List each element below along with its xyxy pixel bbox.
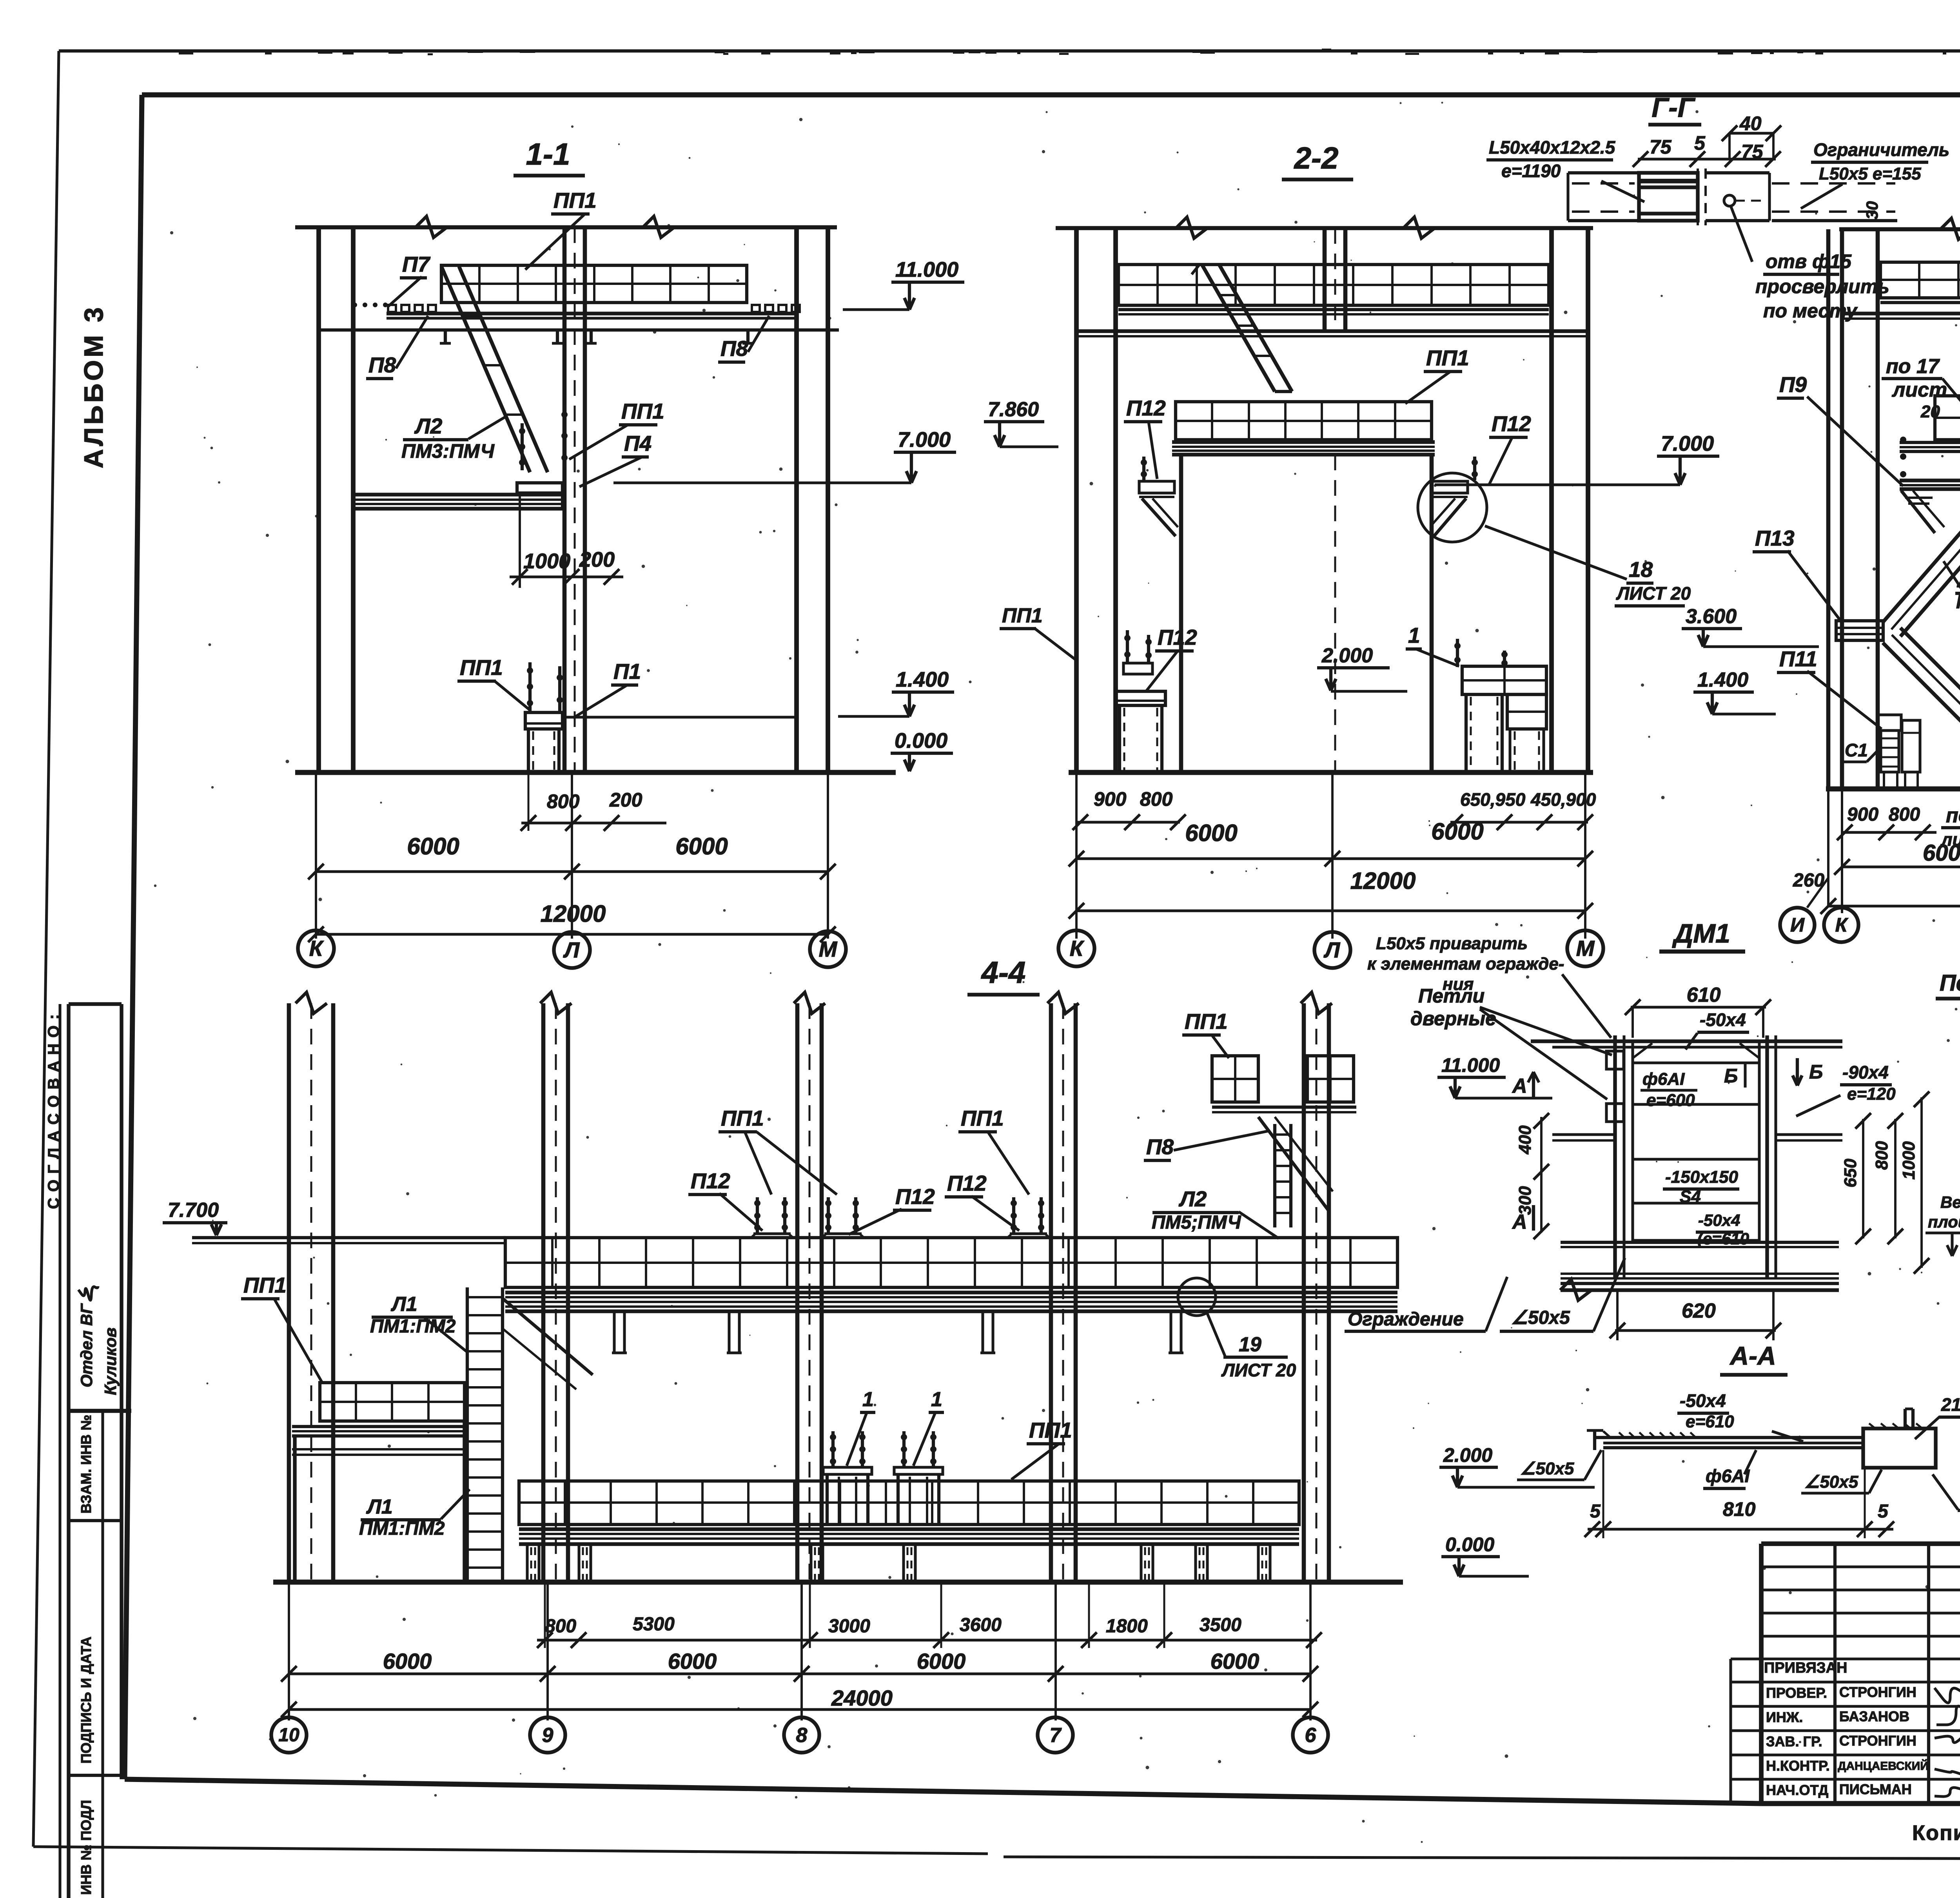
- svg-text:Отдел ВГ: Отдел ВГ: [77, 1303, 96, 1387]
- svg-text:к элементам огражде-: к элементам огражде-: [1367, 954, 1564, 973]
- svg-text:7.000: 7.000: [1661, 432, 1714, 455]
- svg-text:20: 20: [1920, 402, 1940, 421]
- svg-text:3600: 3600: [960, 1615, 1002, 1635]
- svg-text:Куликов: Куликов: [101, 1327, 120, 1395]
- svg-text:3500: 3500: [1200, 1615, 1241, 1635]
- svg-text:П1: П1: [613, 659, 641, 683]
- svg-text:БАЗАНОВ: БАЗАНОВ: [1839, 1708, 1909, 1724]
- svg-text:810: 810: [1723, 1498, 1756, 1520]
- svg-text:L50х40х12х2.5: L50х40х12х2.5: [1489, 137, 1616, 158]
- svg-text:-150х150: -150х150: [1665, 1167, 1738, 1187]
- svg-text:НАЧ.ОТД: НАЧ.ОТД: [1766, 1782, 1828, 1798]
- svg-text:СТРОНГИН: СТРОНГИН: [1839, 1733, 1916, 1749]
- svg-text:А-А: А-А: [1729, 1341, 1776, 1370]
- svg-text:П11: П11: [1779, 647, 1817, 671]
- svg-text:С О Г Л А С О В А Н О :: С О Г Л А С О В А Н О :: [45, 1013, 62, 1209]
- svg-text:П8: П8: [720, 336, 748, 361]
- svg-text:Б: Б: [1809, 1061, 1823, 1083]
- svg-text:24000: 24000: [831, 1686, 893, 1710]
- svg-text:6000: 6000: [407, 833, 459, 859]
- svg-text:900: 900: [1094, 788, 1127, 810]
- svg-text:800: 800: [1889, 804, 1920, 825]
- svg-text:М: М: [819, 937, 838, 961]
- svg-text:6: 6: [1305, 1724, 1317, 1747]
- svg-text:П12: П12: [947, 1171, 987, 1195]
- svg-text:П9: П9: [1779, 372, 1807, 397]
- svg-text:2.000: 2.000: [1321, 644, 1373, 667]
- svg-text:ЛИСТ 20: ЛИСТ 20: [1616, 583, 1691, 604]
- svg-text:П12: П12: [1158, 625, 1197, 649]
- svg-text:12000: 12000: [541, 901, 606, 927]
- svg-text:800: 800: [547, 790, 580, 812]
- svg-text:лист: лист: [1891, 379, 1947, 401]
- svg-text:ЛИСТ 20: ЛИСТ 20: [1221, 1360, 1296, 1380]
- svg-text:1000: 1000: [1899, 1141, 1918, 1180]
- svg-text:6000: 6000: [675, 833, 728, 859]
- svg-text:П7: П7: [402, 252, 431, 276]
- svg-text:5300: 5300: [633, 1614, 675, 1635]
- svg-text:4-4: 4-4: [981, 955, 1026, 990]
- svg-text:Ограничитель: Ограничитель: [1813, 140, 1949, 160]
- svg-text:К: К: [309, 936, 324, 961]
- svg-text:Г-Г: Г-Г: [1651, 92, 1695, 123]
- svg-text:3.600: 3.600: [1686, 605, 1737, 628]
- svg-text:Л: Л: [563, 937, 580, 962]
- svg-text:ДАНЦАЕВСКИЙ: ДАНЦАЕВСКИЙ: [1838, 1759, 1929, 1773]
- svg-text:610: 610: [1687, 984, 1721, 1006]
- svg-text:ПП1: ПП1: [1029, 1418, 1072, 1442]
- svg-text:К: К: [1070, 936, 1085, 961]
- svg-text:Петли: Петли: [1418, 985, 1485, 1007]
- svg-text:Верх: Верх: [1940, 1193, 1960, 1211]
- svg-text:Л1: Л1: [366, 1496, 393, 1518]
- svg-text:L50х5 приварить: L50х5 приварить: [1376, 934, 1528, 953]
- svg-text:Л1: Л1: [390, 1293, 417, 1316]
- svg-text:ПРОВЕР.: ПРОВЕР.: [1766, 1685, 1827, 1701]
- svg-text:6000: 6000: [668, 1649, 717, 1673]
- svg-text:7.860: 7.860: [988, 398, 1039, 421]
- svg-text:П8: П8: [368, 353, 396, 377]
- svg-text:8: 8: [796, 1724, 808, 1747]
- svg-text:9: 9: [542, 1724, 554, 1747]
- svg-text:И: И: [1790, 914, 1805, 936]
- svg-text:75: 75: [1650, 136, 1672, 158]
- svg-text:S4: S4: [1680, 1187, 1701, 1206]
- svg-text:7: 7: [1050, 1724, 1062, 1747]
- svg-text:ПП1: ПП1: [621, 399, 664, 423]
- svg-text:отв ф15: отв ф15: [1766, 250, 1852, 272]
- svg-text:7.000: 7.000: [898, 428, 951, 451]
- svg-text:400: 400: [1515, 1125, 1535, 1155]
- svg-text:ПМ5;ПМЧ: ПМ5;ПМЧ: [1152, 1212, 1241, 1233]
- svg-text:ф6АI: ф6АI: [1706, 1466, 1750, 1486]
- svg-text:П4: П4: [624, 431, 652, 455]
- svg-text:1: 1: [1408, 623, 1420, 647]
- svg-text:по 17: по 17: [1886, 355, 1940, 378]
- svg-text:6000: 6000: [1185, 820, 1237, 846]
- svg-text:по 3: по 3: [1946, 804, 1960, 827]
- svg-text:(е=610: (е=610: [1697, 1229, 1749, 1248]
- svg-text:Л2: Л2: [414, 414, 443, 438]
- svg-text:6000: 6000: [1210, 1649, 1259, 1673]
- svg-text:П12: П12: [895, 1184, 935, 1209]
- svg-text:1: 1: [862, 1388, 874, 1411]
- svg-text:ПМ1:ПМ2: ПМ1:ПМ2: [359, 1518, 445, 1539]
- svg-text:М: М: [1576, 936, 1595, 961]
- svg-text:3000: 3000: [828, 1616, 870, 1637]
- svg-text:1.400: 1.400: [1697, 669, 1748, 691]
- svg-text:ПП1: ПП1: [1002, 604, 1043, 627]
- svg-text:П8: П8: [1146, 1135, 1174, 1159]
- svg-text:П12: П12: [1492, 412, 1531, 436]
- svg-text:АЛЬБОМ 3: АЛЬБОМ 3: [79, 305, 109, 468]
- svg-text:260: 260: [1793, 870, 1824, 891]
- svg-text:Л2: Л2: [1178, 1187, 1207, 1211]
- svg-text:-50х4: -50х4: [1680, 1390, 1726, 1411]
- svg-text:ПРИВЯЗАН: ПРИВЯЗАН: [1764, 1660, 1847, 1676]
- svg-text:∠50х5: ∠50х5: [1520, 1459, 1574, 1478]
- svg-text:300: 300: [1515, 1186, 1535, 1215]
- svg-text:1: 1: [931, 1388, 942, 1411]
- svg-text:ЗАВ. ГР.: ЗАВ. ГР.: [1766, 1733, 1822, 1749]
- svg-text:П13: П13: [1755, 526, 1795, 550]
- svg-text:200: 200: [579, 548, 615, 571]
- svg-text:П12: П12: [1126, 396, 1166, 420]
- svg-text:ПП1: ПП1: [554, 188, 597, 212]
- svg-text:ПП1: ПП1: [721, 1106, 764, 1130]
- svg-text:650: 650: [1841, 1158, 1860, 1187]
- svg-text:Петли дверные: Петли дверные: [1940, 970, 1960, 996]
- svg-text:Копировал: Коршунова: Копировал: Коршунова: [1912, 1821, 1960, 1845]
- svg-text:5: 5: [1590, 1501, 1601, 1522]
- svg-text:Б: Б: [1724, 1065, 1738, 1087]
- svg-text:1-1: 1-1: [526, 137, 570, 171]
- svg-text:6000: 6000: [1923, 840, 1960, 866]
- svg-text:е=1190: е=1190: [1501, 161, 1561, 181]
- svg-text:-50х4: -50х4: [1700, 1010, 1746, 1030]
- svg-text:7.700: 7.700: [168, 1199, 219, 1222]
- svg-text:800: 800: [1872, 1141, 1891, 1170]
- svg-text:11.000: 11.000: [895, 258, 958, 281]
- svg-text:ИНЖ.: ИНЖ.: [1766, 1709, 1803, 1725]
- svg-text:ПМ1;ПМ2: ПМ1;ПМ2: [1956, 592, 1960, 613]
- svg-text:-90х4: -90х4: [1842, 1062, 1889, 1082]
- svg-text:0.000: 0.000: [1445, 1534, 1494, 1555]
- svg-text:ПП1: ПП1: [961, 1106, 1004, 1130]
- svg-text:0.000: 0.000: [895, 729, 947, 752]
- svg-text:650,950: 650,950: [1460, 789, 1526, 810]
- svg-text:ИНВ № ПОДЛ: ИНВ № ПОДЛ: [78, 1800, 94, 1895]
- svg-text:Ограждение: Ограждение: [1348, 1309, 1464, 1330]
- svg-text:L50х5 е=155: L50х5 е=155: [1819, 164, 1921, 183]
- svg-text:10: 10: [278, 1725, 299, 1746]
- svg-text:800: 800: [1140, 788, 1173, 810]
- svg-text:К: К: [1835, 914, 1849, 936]
- svg-text:просверлить: просверлить: [1755, 276, 1889, 297]
- svg-text:18: 18: [1629, 557, 1653, 582]
- svg-text:6000: 6000: [1431, 818, 1483, 845]
- svg-text:ф6АI: ф6АI: [1642, 1070, 1685, 1089]
- svg-text:1800: 1800: [1106, 1616, 1148, 1637]
- svg-text:200: 200: [609, 789, 642, 811]
- svg-text:12000: 12000: [1350, 868, 1416, 894]
- svg-text:∠50х5: ∠50х5: [1511, 1307, 1570, 1328]
- svg-text:СТРОНГИН: СТРОНГИН: [1839, 1684, 1916, 1700]
- svg-text:5: 5: [1878, 1501, 1889, 1522]
- svg-text:19: 19: [1239, 1333, 1261, 1356]
- svg-text:∠50х5: ∠50х5: [1804, 1472, 1858, 1492]
- svg-text:ПОДПИСЬ И ДАТА: ПОДПИСЬ И ДАТА: [78, 1637, 94, 1764]
- svg-text:6000: 6000: [917, 1649, 966, 1673]
- svg-text:П12: П12: [691, 1169, 730, 1193]
- svg-text:40: 40: [1739, 112, 1762, 134]
- svg-text:-50х4: -50х4: [1698, 1211, 1740, 1229]
- svg-text:30: 30: [1863, 201, 1881, 219]
- svg-text:6000: 6000: [383, 1649, 432, 1673]
- svg-text:С1: С1: [1845, 740, 1868, 760]
- svg-text:ПМ3:ПМЧ: ПМ3:ПМЧ: [401, 440, 495, 462]
- svg-text:ДМ1: ДМ1: [1672, 919, 1730, 948]
- svg-text:ПП1: ПП1: [460, 655, 503, 680]
- svg-text:900: 900: [1847, 804, 1878, 825]
- svg-text:е=610: е=610: [1686, 1412, 1734, 1431]
- svg-text:1.400: 1.400: [896, 668, 949, 691]
- svg-text:ВЗАМ. ИНВ №: ВЗАМ. ИНВ №: [78, 1415, 94, 1514]
- svg-text:Н.КОНТР.: Н.КОНТР.: [1766, 1758, 1830, 1774]
- svg-text:ПП1: ПП1: [1426, 346, 1469, 370]
- svg-text:е=120: е=120: [1847, 1084, 1896, 1104]
- svg-text:620: 620: [1682, 1300, 1716, 1322]
- svg-text:Л: Л: [1323, 937, 1341, 962]
- svg-text:210х80: 210х80: [1941, 1394, 1960, 1415]
- svg-text:ПП1: ПП1: [1185, 1009, 1228, 1033]
- svg-text:11.000: 11.000: [1441, 1054, 1500, 1076]
- svg-text:е=600: е=600: [1646, 1091, 1695, 1110]
- svg-text:площадки: площадки: [1928, 1213, 1960, 1231]
- svg-text:ПП1: ПП1: [243, 1273, 287, 1297]
- svg-text:1000: 1000: [523, 549, 570, 573]
- svg-text:2.000: 2.000: [1443, 1444, 1492, 1466]
- svg-text:ПИСЬМАН: ПИСЬМАН: [1839, 1781, 1912, 1797]
- svg-text:А: А: [1512, 1075, 1527, 1097]
- svg-text:2-2: 2-2: [1294, 141, 1339, 175]
